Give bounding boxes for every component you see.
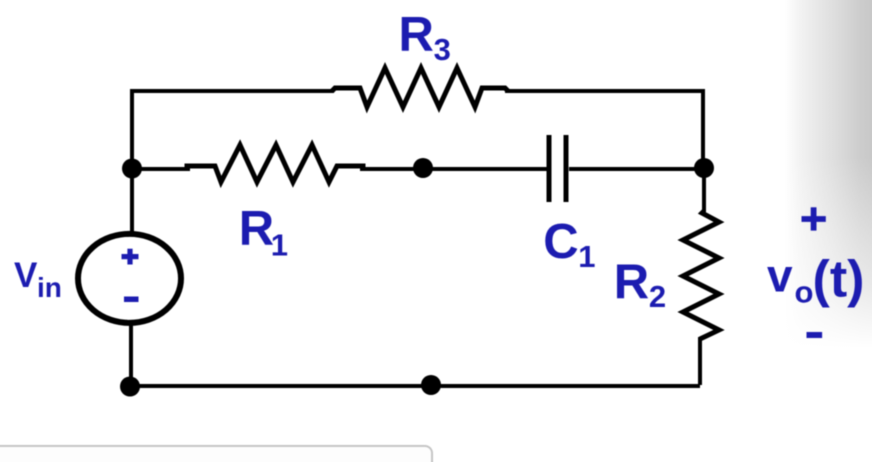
resistor R1: [187, 145, 363, 182]
svg-text:C: C: [543, 215, 578, 269]
svg-text:2: 2: [649, 279, 666, 314]
node A junction dot: [122, 159, 142, 179]
svg-text:1: 1: [578, 239, 595, 274]
svg-text:V: V: [14, 256, 38, 295]
wire: bottom rail: [130, 384, 700, 388]
wire: node A to R1: [132, 167, 190, 171]
output - sign: [807, 332, 823, 338]
wire: R3 to top-right corner, down to node C: [505, 91, 703, 168]
source - polarity: [124, 297, 139, 303]
wire: R2 to bottom rail: [698, 337, 702, 385]
resistor R2: [683, 211, 719, 339]
svg-text:3: 3: [434, 32, 451, 67]
svg-text:R: R: [399, 8, 434, 62]
wire: node C down to R2: [702, 168, 706, 212]
source + polarity: [122, 249, 139, 265]
answer box edge at bottom: [0, 446, 432, 462]
svg-text:o: o: [795, 275, 814, 310]
svg-text:v: v: [767, 250, 793, 302]
svg-text:in: in: [37, 272, 62, 303]
bottom-mid junction dot: [421, 375, 441, 395]
wire: C1 to node C: [569, 167, 704, 171]
svg-text:1: 1: [271, 228, 288, 263]
capacitor C1 left plate: [547, 135, 552, 202]
voltage source Vin circle: [78, 234, 181, 323]
wire: source to bottom rail: [129, 323, 133, 386]
wire: R1 to node B: [360, 167, 547, 171]
svg-text:(t): (t): [813, 251, 865, 309]
node C junction dot: [694, 158, 714, 178]
resistor R3: [332, 68, 508, 107]
node B junction dot: [413, 158, 433, 178]
output + sign: [802, 207, 826, 230]
svg-text:R: R: [614, 256, 649, 310]
bottom-left junction dot: [120, 377, 140, 397]
svg-text:R: R: [239, 202, 274, 256]
wire: node A down to source: [130, 169, 134, 232]
capacitor C1 right plate: [564, 135, 569, 202]
wire: top rail left vertical + horizontal to R3: [132, 91, 334, 169]
